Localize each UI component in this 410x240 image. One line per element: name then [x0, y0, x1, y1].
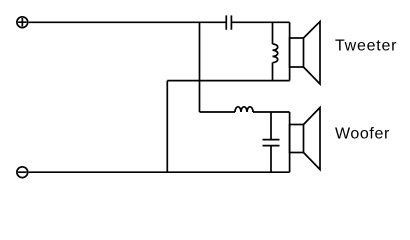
- speaker tweeter (driver box): [290, 38, 304, 67]
- wire: tweeter return vertical down to bottom rail: [166, 81, 168, 173]
- wire: vertical drop from top rail to woofer branch: [199, 22, 201, 112]
- capacitor C2 (parallel, woofer branch): [263, 112, 280, 172]
- capacitor C1 (series, tweeter branch): [226, 15, 231, 29]
- wire: bottom rail from minus terminal to woofer: [29, 171, 290, 173]
- wire: woofer left vertical (to speaker): [289, 112, 291, 172]
- speaker woofer (cone): [304, 108, 321, 170]
- wire: woofer branch top from inductor to speaker: [253, 111, 290, 113]
- inductor L1 (parallel, tweeter branch): [273, 22, 278, 80]
- wire: top rail from capacitor to tweeter: [231, 21, 289, 23]
- wire: tweeter left vertical (to speaker): [289, 22, 291, 80]
- svg-text:Woofer: Woofer: [335, 126, 390, 143]
- minus terminal: [17, 167, 28, 178]
- speaker tweeter (cone): [304, 22, 321, 85]
- wire: woofer branch top from junction to inductor: [200, 111, 236, 113]
- inductor L2 (series, woofer branch): [235, 107, 253, 112]
- wire: top rail from plus terminal to capacitor: [29, 21, 227, 23]
- wire: tweeter bottom return: [167, 80, 289, 82]
- plus terminal: [17, 17, 28, 28]
- speaker woofer (driver box): [290, 125, 304, 153]
- svg-text:Tweeter: Tweeter: [335, 38, 397, 55]
